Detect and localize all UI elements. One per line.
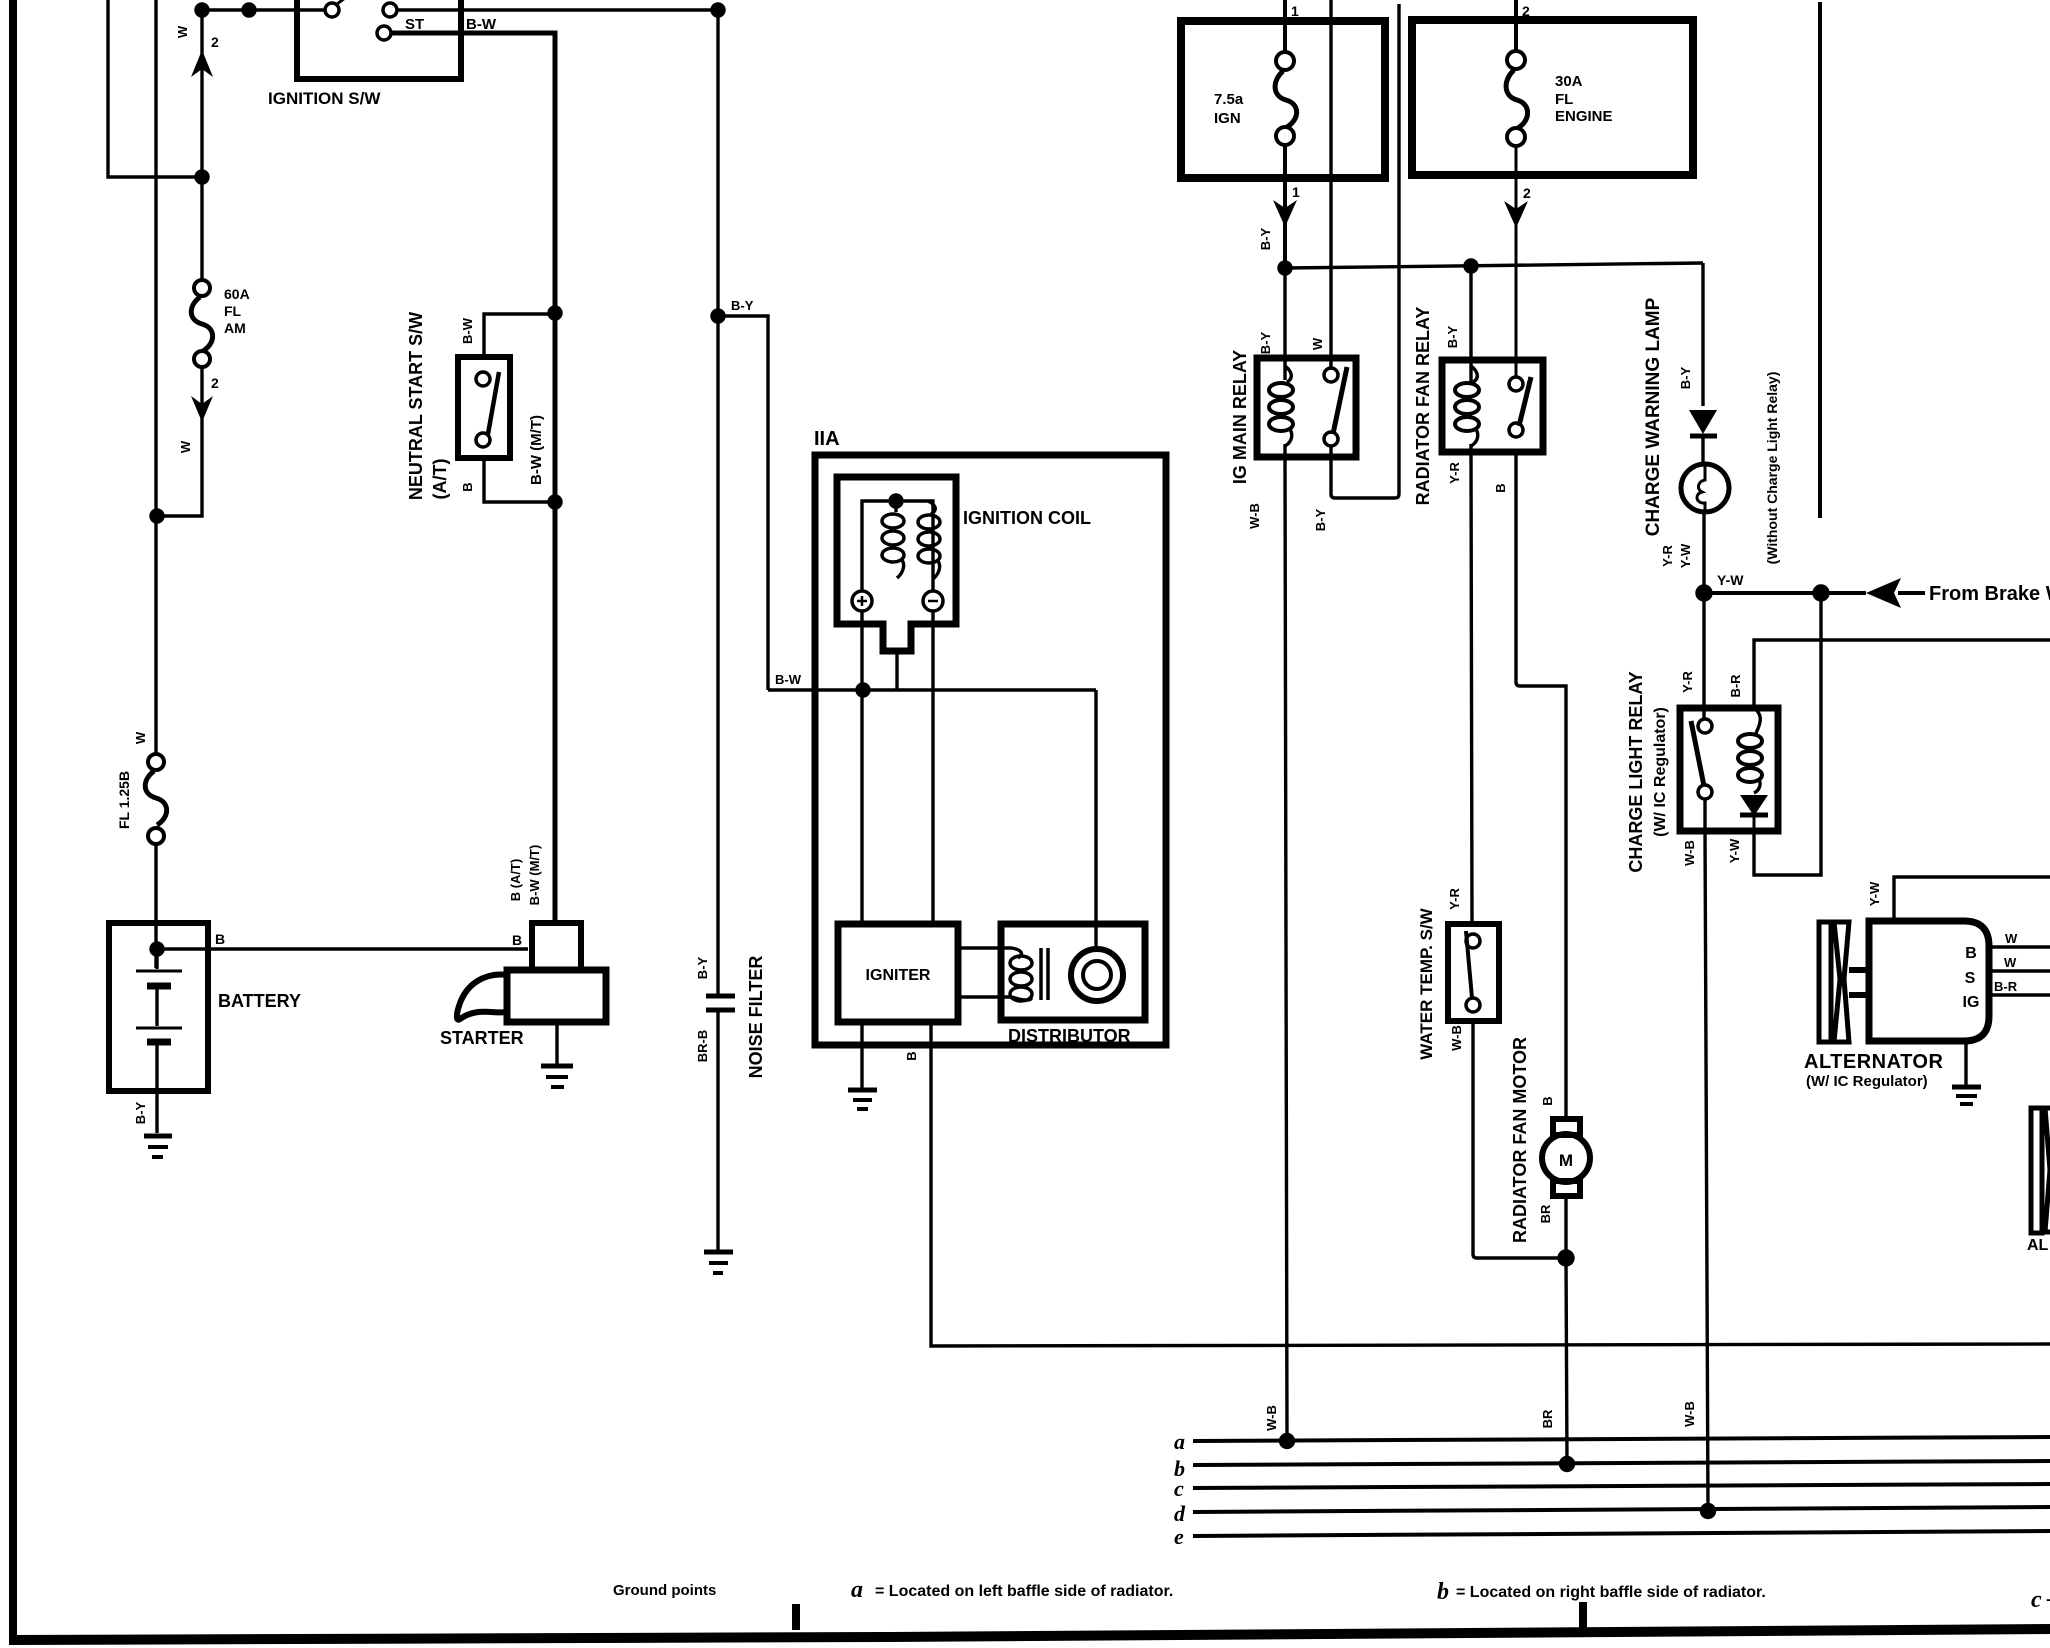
svg-text:BR: BR	[1538, 1204, 1553, 1223]
svg-text:B: B	[1540, 1096, 1555, 1105]
ground line c	[1193, 1484, 2050, 1488]
svg-text:B: B	[215, 931, 225, 947]
svg-text:NEUTRAL START S/W: NEUTRAL START S/W	[406, 312, 426, 500]
fuse 7.5a circle bottom	[1276, 127, 1294, 145]
wire below 60A fuse	[157, 367, 202, 516]
fuse 60A FL AM circle top	[194, 280, 210, 296]
node dot fan relay branch	[1465, 260, 1477, 272]
svg-text:W: W	[2004, 955, 2017, 970]
battery cell 2 long plate	[136, 1027, 182, 1030]
wire lamp to Y junction	[1702, 512, 1705, 593]
arrow down 30A wire	[1504, 201, 1528, 228]
ignition switch contact AM circle	[325, 3, 339, 17]
fan relay switch blade	[1519, 377, 1531, 426]
svg-text:RADIATOR FAN MOTOR: RADIATOR FAN MOTOR	[1510, 1037, 1530, 1243]
wire B-Y to charge warning lamp	[1701, 263, 1704, 406]
charge relay coil	[1754, 708, 1760, 733]
IG main relay switch contact bottom	[1324, 432, 1338, 446]
node dot Y-W riser	[1814, 586, 1828, 600]
igniter box	[838, 924, 958, 1022]
water temp switch box	[1448, 924, 1499, 1021]
alternator shaft	[1849, 970, 1869, 995]
svg-text:From Brake Warning: From Brake Warning	[1929, 583, 2050, 605]
neutral start switch box	[458, 357, 510, 458]
wire ignition feed vertical 2W	[200, 10, 203, 280]
starter body box	[507, 970, 606, 1022]
svg-text:B: B	[1493, 483, 1508, 492]
svg-text:2: 2	[1523, 185, 1531, 201]
svg-text:IIA: IIA	[814, 428, 840, 450]
wire B-W horizontal to HT drop	[768, 688, 1096, 691]
IG main relay switch contact top	[1324, 368, 1338, 382]
noise filter wire	[716, 316, 719, 994]
svg-text:W: W	[2005, 931, 2018, 946]
svg-text:c: c	[2031, 1587, 2042, 1613]
wire HT drop to distributor	[1094, 690, 1097, 947]
svg-text:c: c	[1174, 1476, 1184, 1501]
svg-text:IG: IG	[1963, 994, 1980, 1011]
wire stub to text	[1898, 591, 1925, 595]
noise filter capacitor plate bottom	[706, 1008, 735, 1013]
svg-text:CHARGE WARNING LAMP: CHARGE WARNING LAMP	[1643, 297, 1664, 536]
svg-text:Y-W: Y-W	[1867, 881, 1882, 906]
wire branch to coil B-W	[718, 316, 768, 690]
arrow down B-Y	[1273, 200, 1297, 227]
ground alternator	[1952, 1085, 1981, 1090]
arrow down on feed below fuse	[191, 396, 213, 422]
ignition switch contact ST circle	[377, 26, 391, 40]
wire alternator B output	[1989, 945, 2050, 948]
ground battery	[144, 1134, 172, 1139]
svg-text:IGNITION COIL: IGNITION COIL	[963, 508, 1091, 528]
wire from IG contact to B-Y drop	[397, 8, 718, 11]
wire HT tower stub	[895, 651, 898, 690]
svg-text:CHARGE LIGHT RELAY: CHARGE LIGHT RELAY	[1626, 671, 1646, 872]
svg-text:AM: AM	[224, 320, 246, 336]
battery inner wire 1	[155, 949, 158, 969]
fusible link FL 1.25B circle bottom	[148, 828, 164, 844]
IG main relay switch blade	[1333, 367, 1347, 434]
ignition switch contact IG circle	[383, 3, 397, 17]
ignition switch box	[297, 0, 461, 79]
charge light relay box	[1680, 708, 1778, 831]
battery inner wire 2	[155, 989, 158, 1026]
starter solenoid box	[532, 923, 581, 970]
wire below 30A fuse	[1515, 146, 1518, 377]
svg-text:W-B: W-B	[1449, 1025, 1464, 1051]
alternator body	[1869, 921, 1989, 1041]
svg-text:S: S	[1965, 970, 1976, 987]
svg-text:-: -	[2046, 1591, 2050, 1608]
IG main relay coil	[1285, 366, 1291, 382]
svg-text:Y-W: Y-W	[1717, 572, 1744, 588]
svg-text:W-B: W-B	[1682, 1401, 1697, 1427]
svg-text:B: B	[460, 482, 475, 491]
wire diode to lamp	[1701, 438, 1704, 465]
wire B-W from ignition switch down	[716, 10, 719, 316]
node dot top of B-W drop	[712, 4, 724, 16]
svg-text:B-W: B-W	[466, 16, 497, 33]
node dot B-Y bus	[1279, 262, 1291, 274]
node dot lower tap	[549, 496, 561, 508]
svg-text:W-B: W-B	[1682, 840, 1697, 866]
svg-text:M: M	[1559, 1151, 1573, 1170]
node battery B junction	[151, 943, 163, 955]
fuse box 30A FL ENGINE	[1412, 20, 1693, 175]
svg-text:a: a	[851, 1577, 863, 1603]
svg-text:ST: ST	[405, 16, 424, 33]
neutral start switch upper tap	[484, 314, 555, 357]
svg-text:B-Y: B-Y	[1258, 331, 1273, 354]
fan relay switch contact top	[1509, 377, 1523, 391]
wire Y-W riser down and elbow to diode	[1754, 593, 1821, 875]
wire igniter B output	[931, 1022, 2050, 1346]
battery B output wire	[157, 947, 528, 950]
ignition switch top wire	[202, 8, 324, 11]
svg-text:W: W	[175, 25, 190, 38]
node dot on top wire	[243, 4, 255, 16]
node dot coil top	[890, 495, 902, 507]
coil internal top bar	[862, 501, 933, 592]
coil primary winding	[894, 501, 897, 512]
svg-text:B-Y: B-Y	[1445, 325, 1460, 348]
alternator ground stem	[1964, 1041, 1967, 1085]
svg-text:FL 1.25B: FL 1.25B	[116, 771, 132, 829]
svg-text:B (A/T): B (A/T)	[508, 859, 523, 902]
svg-text:2: 2	[211, 34, 219, 50]
svg-text:2: 2	[1522, 3, 1530, 19]
border tick 2	[1579, 1602, 1587, 1628]
svg-text:7.5a: 7.5a	[1214, 91, 1244, 108]
node dot W-B on line d	[1702, 1505, 1715, 1518]
border bottom bar	[9, 1629, 2050, 1640]
node dot on battery line at fuse branch	[151, 510, 163, 522]
battery cell 2 short plate	[147, 1039, 171, 1046]
distributor cap outer circle	[1071, 949, 1123, 1001]
svg-text:= Located on left baffle side: = Located on left baffle side of radiato…	[875, 1583, 1173, 1600]
wire W-B charge relay down to line d	[1705, 799, 1708, 1511]
fuse 60A FL AM circle bottom	[194, 351, 210, 367]
alternator pulley groove	[1834, 922, 1849, 1042]
wire igniter to pickup coil lower	[958, 995, 1012, 998]
ground line e	[1193, 1531, 2050, 1536]
svg-text:ENGINE: ENGINE	[1555, 108, 1613, 125]
distributor box	[1001, 924, 1145, 1020]
node dot B-Y branch	[712, 310, 724, 322]
svg-text:e: e	[1174, 1524, 1184, 1549]
wire B-Y into IG main relay coil	[1283, 268, 1286, 380]
noise filter lower wire	[716, 1012, 719, 1250]
svg-text:30A: 30A	[1555, 73, 1583, 90]
svg-text:WATER TEMP. S/W: WATER TEMP. S/W	[1417, 907, 1436, 1059]
svg-text:1: 1	[1292, 184, 1300, 200]
fuse 30A circle bottom	[1507, 128, 1525, 146]
alternator pulley outer bar	[1819, 922, 1831, 1042]
svg-text:Y-R: Y-R	[1660, 545, 1675, 567]
svg-text:Y-W: Y-W	[1727, 838, 1742, 863]
svg-text:B-W: B-W	[775, 672, 802, 687]
charge relay switch blade	[1691, 721, 1704, 786]
battery box	[109, 923, 208, 1091]
ground igniter	[848, 1088, 877, 1093]
fusible link FL 1.25B circle top	[148, 754, 164, 770]
water temp contact top	[1466, 934, 1480, 948]
fuse 30A element	[1506, 70, 1528, 128]
svg-text:NOISE FILTER: NOISE FILTER	[746, 956, 766, 1079]
wire into 7.5a fuse	[1283, 0, 1287, 52]
fan motor brush top	[1553, 1119, 1580, 1135]
svg-text:IGN: IGN	[1214, 110, 1241, 127]
battery cell 1 long plate	[136, 970, 182, 973]
wire B fan relay to motor	[1516, 452, 1566, 1119]
wire B-Y into fan relay coil	[1469, 266, 1472, 382]
neutral start switch blade	[488, 372, 499, 434]
svg-text:B-Y: B-Y	[133, 1101, 148, 1124]
fan relay coil	[1471, 366, 1477, 382]
svg-text:Y-W: Y-W	[1678, 543, 1693, 568]
charge relay switch contact bottom	[1698, 785, 1712, 799]
ground noise filter	[704, 1250, 733, 1255]
node dot W-B on line a	[1281, 1435, 1294, 1448]
neutral start switch contact top	[476, 372, 490, 386]
node dot coil plus junction	[857, 684, 869, 696]
wire B-Y horizontal bus	[1285, 263, 1703, 268]
battery cell 1 short plate	[147, 983, 171, 990]
battery inner wire 3	[155, 1045, 158, 1133]
wire W-B from IG relay down to line a	[1285, 457, 1287, 1441]
svg-text:(W/ IC Regulator): (W/ IC Regulator)	[1806, 1073, 1928, 1090]
charge warning lamp bulb	[1681, 464, 1729, 512]
svg-text:B-W (M/T): B-W (M/T)	[527, 845, 542, 906]
wire B-R from coil up and right	[1754, 640, 2050, 708]
svg-text:2: 2	[211, 375, 219, 391]
svg-text:BR-B: BR-B	[695, 1030, 710, 1063]
wire coil minus to igniter	[931, 611, 934, 924]
fan relay coil stub	[1469, 444, 1472, 452]
svg-text:IG MAIN RELAY: IG MAIN RELAY	[1230, 350, 1250, 484]
wire Y-R fan relay coil to water temp switch	[1471, 452, 1472, 924]
svg-text:STARTER: STARTER	[440, 1028, 524, 1048]
svg-text:IGNITER: IGNITER	[866, 967, 931, 984]
svg-text:(W/ IC Regulator): (W/ IC Regulator)	[1652, 707, 1669, 837]
wire battery main lower	[154, 844, 157, 968]
wire W-B water temp to motor junction	[1473, 1021, 1566, 1258]
distributor pickup coil	[1012, 948, 1021, 958]
node dot at top of ignition feed	[196, 4, 208, 16]
wire BR junction down to line b	[1566, 1258, 1567, 1464]
radiator fan relay box	[1442, 360, 1543, 452]
svg-text:B-Y: B-Y	[731, 298, 754, 313]
wire battery main vertical W	[154, 0, 157, 754]
svg-text:BR: BR	[1540, 1409, 1555, 1428]
wire W into IG main relay	[1329, 0, 1332, 368]
svg-text:B-R: B-R	[1728, 674, 1743, 698]
fuse 7.5a element	[1275, 71, 1297, 127]
starter pinion hook	[457, 975, 508, 1020]
starter ground stem	[555, 1022, 558, 1064]
IG main relay coil stub bottom	[1283, 444, 1286, 457]
arrow from brake warning	[1866, 578, 1901, 608]
fuse 7.5a circle top	[1276, 52, 1294, 70]
svg-text:B-R: B-R	[1994, 979, 2018, 994]
svg-text:B: B	[904, 1051, 919, 1060]
svg-text:60A: 60A	[224, 286, 250, 302]
ground starter	[541, 1064, 573, 1069]
svg-text:B-Y: B-Y	[1678, 366, 1693, 389]
svg-text:RADIATOR FAN RELAY: RADIATOR FAN RELAY	[1413, 307, 1433, 506]
fuse box 7.5a IGN	[1181, 21, 1385, 178]
svg-text:AL: AL	[2027, 1237, 2049, 1254]
wire B-Y from IG relay switch up and off page	[1331, 4, 1399, 498]
svg-text:B-Y: B-Y	[1313, 508, 1328, 531]
wire branch top-left vertical	[108, 0, 198, 177]
node dot upper tap	[549, 307, 561, 319]
svg-text:Y-R: Y-R	[1680, 671, 1695, 693]
svg-text:B: B	[1965, 945, 1977, 962]
IG main relay box	[1257, 358, 1356, 457]
second alternator pulley groove (cut off)	[2045, 1108, 2050, 1232]
svg-text:DISTRIBUTOR: DISTRIBUTOR	[1008, 1026, 1131, 1046]
svg-text:Ground points: Ground points	[613, 1582, 716, 1599]
IIA distributor assembly box	[815, 455, 1166, 1045]
ignition coil box with HT notch	[837, 477, 956, 651]
svg-text:FL: FL	[224, 303, 242, 319]
arrow up on ignition feed	[191, 50, 213, 77]
svg-text:(Without Charge Light Relay): (Without Charge Light Relay)	[1764, 372, 1780, 565]
wire Y-R junction to charge light relay	[1702, 593, 1705, 719]
wire alternator S output	[1989, 969, 2050, 972]
wire coil plus to igniter	[860, 611, 863, 924]
igniter ground stem	[860, 1022, 863, 1088]
ground line d	[1193, 1507, 2050, 1512]
svg-text:B: B	[512, 932, 522, 948]
distributor core bars	[1041, 948, 1048, 1000]
water temp blade	[1466, 931, 1472, 998]
second alternator pulley bar (cut off)	[2031, 1108, 2042, 1233]
svg-text:IGNITION S/W: IGNITION S/W	[268, 89, 381, 108]
ground line b	[1193, 1461, 2050, 1465]
svg-text:W: W	[133, 731, 148, 744]
node dot junction x108 line	[196, 171, 208, 183]
wire ST to starter B-W	[391, 33, 555, 923]
wire BR motor to junction	[1564, 1196, 1567, 1258]
wire into 30A fuse	[1514, 0, 1518, 51]
svg-text:a: a	[1174, 1429, 1185, 1454]
svg-text:W: W	[1310, 337, 1325, 350]
water temp contact bottom	[1466, 998, 1480, 1012]
svg-text:B-W (M/T): B-W (M/T)	[528, 415, 545, 485]
ground line a	[1193, 1437, 2050, 1441]
svg-text:d: d	[1174, 1501, 1186, 1526]
noise filter capacitor plate top	[706, 994, 735, 999]
border tick 1	[792, 1604, 800, 1630]
neutral start switch contact bottom	[476, 433, 490, 447]
wire igniter to pickup coil upper	[958, 946, 1012, 949]
charge relay switch contact top	[1698, 719, 1712, 733]
svg-text:Y-R: Y-R	[1447, 888, 1462, 910]
svg-text:W: W	[178, 440, 193, 453]
svg-text:W-B: W-B	[1247, 503, 1262, 529]
fan relay switch contact bottom	[1509, 423, 1523, 437]
svg-text:B-Y: B-Y	[695, 956, 710, 979]
distributor cap inner circle	[1083, 961, 1111, 989]
ignition switch contact tick	[337, 0, 345, 4]
border right top segment	[1818, 2, 1822, 518]
wire Y-W junction row	[1704, 591, 1866, 595]
diode at charge lamp	[1689, 410, 1717, 434]
fan motor body	[1542, 1134, 1590, 1182]
fuse 30A circle top	[1507, 51, 1525, 69]
node dot BR on line b	[1561, 1458, 1574, 1471]
fusible link FL 1.25B element	[145, 771, 166, 825]
svg-text:b: b	[1437, 1579, 1449, 1605]
node dot lamp junction	[1697, 586, 1711, 600]
wire alternator IG output	[1989, 993, 2050, 996]
svg-text:W-B: W-B	[1264, 1405, 1279, 1431]
svg-text:BATTERY: BATTERY	[218, 991, 301, 1011]
coil secondary winding	[928, 501, 935, 514]
coil plus terminal	[852, 591, 872, 611]
wire below 7.5a fuse	[1283, 145, 1287, 268]
border left bar	[9, 0, 17, 1641]
fuse 60A FL AM element	[191, 297, 212, 351]
svg-text:= Located on right baffle sid: = Located on right baffle side of radiat…	[1456, 1584, 1766, 1601]
svg-text:1: 1	[1291, 3, 1299, 19]
neutral start switch lower tap	[484, 458, 555, 502]
coil minus terminal	[923, 591, 943, 611]
wire Y-W from alternator	[1894, 877, 2050, 921]
charge relay diode	[1740, 795, 1768, 816]
lamp filament	[1697, 465, 1705, 512]
svg-text:Y-R: Y-R	[1447, 462, 1462, 484]
svg-text:(A/T): (A/T)	[430, 459, 450, 500]
svg-text:ALTERNATOR: ALTERNATOR	[1804, 1051, 1943, 1073]
svg-text:B-W: B-W	[460, 317, 475, 344]
svg-text:B-Y: B-Y	[1258, 227, 1273, 250]
node dot motor junction	[1559, 1251, 1573, 1265]
fan motor brush bottom	[1553, 1181, 1580, 1196]
svg-text:FL: FL	[1555, 91, 1573, 108]
